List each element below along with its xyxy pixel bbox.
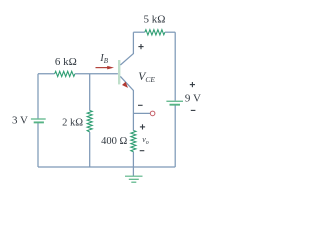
wire: base wire from 6k resistor to transistor base	[75, 73, 118, 75]
wire: top-right horizontal to 5k resistor	[133, 31, 144, 33]
wire: left vertical bottom (3V battery to ground rail)	[37, 123, 39, 167]
wire: top-left horizontal, source side of 6k resistor	[38, 73, 55, 75]
minus sign of 9V	[191, 109, 196, 111]
svg-text:9 V: 9 V	[185, 93, 201, 105]
svg-text:3 V: 3 V	[12, 114, 28, 126]
wire: ground stub	[132, 167, 134, 176]
svg-text:VCE: VCE	[138, 71, 155, 84]
svg-text:IB: IB	[99, 53, 109, 65]
svg-text:400 Ω: 400 Ω	[101, 136, 127, 147]
battery V1 3V long plate	[31, 118, 46, 120]
battery V1 3V short plate	[34, 121, 44, 123]
minus sign of v_o	[140, 150, 145, 152]
wire: middle vertical, node to 2k resistor	[89, 74, 91, 111]
svg-text:vo: vo	[142, 135, 149, 146]
wire: emitter to output terminal	[133, 112, 150, 114]
svg-text:2 kΩ: 2 kΩ	[62, 118, 83, 129]
minus sign of V_CE	[138, 104, 143, 106]
plus sign of 9V	[190, 82, 195, 87]
battery V2 9V short plate	[170, 104, 181, 106]
wire: top-right horizontal, 5k resistor to right rail	[165, 31, 175, 33]
wire: left vertical top (node A to 3V battery)	[37, 74, 39, 119]
arrow I_B (red, pointing right into base)	[96, 66, 115, 70]
wire: right vertical top (to 9V battery)	[174, 32, 176, 101]
output terminal (open circle)	[150, 111, 155, 116]
svg-text:5 kΩ: 5 kΩ	[144, 14, 166, 26]
transistor Q1 collector lead	[120, 32, 133, 65]
ground symbol	[125, 176, 143, 182]
wire: bottom ground rail	[38, 166, 175, 168]
transistor Q1 emitter arrow (red)	[122, 82, 128, 88]
battery V2 9V long plate	[166, 100, 183, 102]
resistor 6 kOhm (horizontal zigzag)	[55, 71, 75, 76]
resistor 400 Ohm (vertical zigzag on emitter branch)	[131, 131, 136, 152]
transistor Q1 base bar	[118, 60, 120, 84]
plus sign of V_CE	[138, 44, 143, 49]
svg-text:6 kΩ: 6 kΩ	[55, 56, 77, 68]
wire: middle vertical, 2k resistor to ground rail	[89, 132, 91, 167]
wire: emitter branch below 400 Ohm resistor	[132, 152, 134, 167]
resistor 2 kOhm (vertical zigzag)	[87, 111, 92, 133]
wire: right vertical bottom (9V battery to ground rail)	[174, 105, 176, 167]
transistor Q1 emitter lead	[120, 76, 133, 130]
plus sign of v_o	[140, 124, 145, 129]
resistor 5 kOhm (horizontal zigzag)	[145, 30, 165, 35]
